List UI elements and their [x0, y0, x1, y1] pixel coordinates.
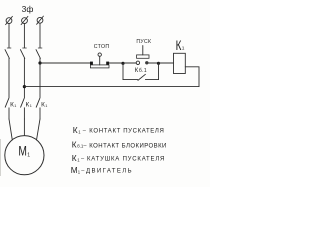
wire: node D to coil K1	[159, 62, 174, 64]
wire phase L2 lower	[23, 108, 25, 119]
wire control top: node A to stop button	[40, 62, 91, 64]
switch QS2 blade	[20, 48, 26, 58]
svg-text:М: М	[18, 143, 27, 159]
label K1 (coil)	[176, 37, 185, 53]
wire: stop button to node C	[109, 62, 123, 64]
main contact K1 phase L2	[21, 98, 32, 108]
switch QS3 blade	[36, 48, 42, 58]
wire phase L3 middle	[39, 58, 41, 97]
svg-text:1: 1	[182, 46, 185, 52]
node A (tap of control circuit on L3)	[38, 61, 41, 64]
wire: start button to node D	[149, 62, 159, 64]
svg-text:3ф: 3ф	[22, 4, 34, 14]
node B (tap of control return on L2)	[23, 85, 26, 88]
terminal L2 (slashed circle)	[21, 16, 28, 24]
svg-text:1: 1	[30, 104, 32, 108]
legend line 3: К1 - катушка пускателя	[72, 153, 165, 163]
svg-text:СТОП: СТОП	[94, 44, 110, 50]
legend line 4: М1 - двигатель	[71, 166, 133, 175]
wire: coil right to down-corner	[185, 67, 199, 87]
svg-text:КОНТАКТ ПУСКАТЕЛЯ: КОНТАКТ ПУСКАТЕЛЯ	[89, 129, 164, 135]
motor lead middle	[23, 119, 25, 136]
node C (left bypass junction)	[121, 62, 124, 65]
wire bypass right vertical	[158, 63, 160, 79]
svg-text:1: 1	[45, 104, 47, 108]
svg-text:К: К	[176, 37, 182, 53]
svg-text:ДВИГАТЕЛЬ: ДВИГАТЕЛЬ	[86, 169, 133, 175]
wire phase L3 upper	[39, 24, 41, 48]
legend line 1: К1 - контакт пускателя	[73, 125, 165, 135]
svg-text:б.1: б.1	[139, 68, 147, 74]
contact Кб1 (blocking contact, normally open)	[138, 74, 146, 80]
coil K1 (contactor coil rectangle)	[174, 53, 186, 73]
switch QS1 blade	[5, 48, 11, 58]
label Кб.1	[135, 67, 147, 74]
wire phase L1 lower	[8, 108, 10, 119]
terminal L1 (slashed circle)	[6, 16, 13, 24]
wire bypass left vertical	[122, 63, 124, 79]
start button SB2 (normally open, пуск)	[136, 39, 151, 64]
wire phase L1 upper	[8, 24, 10, 48]
legend line 2: Кб.1 - контакт блокировки	[72, 141, 167, 150]
wire phase L1 middle	[8, 58, 10, 97]
svg-text:М: М	[71, 166, 78, 175]
wire phase L3 lower	[39, 108, 41, 119]
svg-text:1: 1	[14, 104, 16, 108]
wire: node C to start button	[123, 62, 136, 64]
svg-text:КОНТАКТ БЛОКИРОВКИ: КОНТАКТ БЛОКИРОВКИ	[89, 144, 167, 150]
wire phase L2 upper	[23, 24, 25, 48]
wire control bottom return	[24, 86, 199, 88]
motor M1	[5, 136, 44, 175]
wire phase L2 middle	[23, 58, 25, 97]
legend	[71, 125, 167, 175]
main contact K1 phase L1	[5, 98, 16, 108]
stop button SB1 (normally closed)	[90, 44, 109, 68]
svg-text:К: К	[73, 125, 78, 135]
motor lead left	[9, 119, 12, 140]
scan smudge left edge	[0, 139, 2, 176]
node D (right bypass junction)	[157, 62, 160, 65]
svg-text:1: 1	[27, 152, 30, 158]
svg-text:ПУСК: ПУСК	[136, 39, 151, 45]
main contact K1 phase L3	[36, 98, 47, 108]
svg-text:КАТУШКА ПУСКАТЕЛЯ: КАТУШКА ПУСКАТЕЛЯ	[87, 157, 165, 163]
terminal L3 (slashed circle)	[37, 16, 44, 24]
svg-text:К: К	[72, 153, 77, 163]
wire bypass bottom right segment	[145, 79, 158, 81]
wire bypass bottom left segment	[123, 79, 138, 81]
motor lead right	[37, 119, 41, 140]
label 3ф (three-phase supply)	[22, 4, 34, 14]
svg-text:К: К	[72, 141, 77, 150]
